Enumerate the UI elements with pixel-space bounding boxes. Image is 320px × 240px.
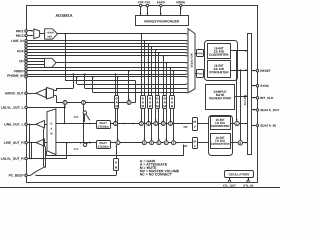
synchronizer block	[136, 16, 189, 26]
input attenuator box PHONE	[115, 96, 119, 109]
legend	[140, 160, 155, 162]
pin XTL_OUT	[229, 177, 231, 180]
pin CD	[19, 60, 23, 62]
wires box AUX to mix	[148, 109, 150, 121]
wires box MIC/CD to mix	[155, 109, 157, 121]
R sum node LINE	[142, 141, 146, 145]
mic record wire	[57, 33, 185, 35]
R sum node AUX	[150, 141, 154, 145]
L sum node LINE	[139, 122, 143, 126]
DAC1 sum node	[235, 121, 239, 125]
pin MIC1	[16, 30, 23, 32]
master volume box R	[193, 138, 198, 149]
pin BIT_CLK (right)	[252, 97, 256, 99]
pc beep attenuator box	[114, 159, 119, 171]
pin CS0 (top)	[138, 1, 143, 3]
mono sum node 1	[63, 101, 67, 105]
wire DAC1 sum	[230, 123, 235, 125]
ADC right block	[208, 61, 231, 78]
wire DAC2 sum	[230, 142, 238, 144]
mono out wire	[27, 93, 36, 95]
mono mux	[47, 88, 54, 100]
wire DAC1 sum to AC-link	[239, 123, 247, 125]
wire ADC2 down to DAC2 sum	[240, 70, 242, 140]
R chain end arrow	[176, 142, 178, 144]
NC label L	[184, 126, 188, 128]
pc beep wire	[36, 175, 38, 177]
wire DAC2 sum to AC-link	[243, 142, 248, 144]
wires box LINE to mix	[141, 109, 143, 121]
pin LNLVL_OUT_L	[1, 106, 23, 109]
pin MIC2	[16, 34, 23, 36]
pin LNLVL_OUT_R	[1, 157, 24, 160]
pin RESET (right)	[252, 70, 256, 72]
input bus wires to selector	[27, 40, 186, 42]
3D bypass switch R	[80, 142, 82, 144]
phat stereo block R	[97, 141, 111, 149]
record selector	[188, 29, 195, 93]
L mix sum after phat	[114, 122, 118, 126]
wire taps box PCM	[170, 68, 172, 96]
R sum node PCM	[172, 141, 176, 145]
monitor wire 3	[92, 77, 94, 93]
3D bypass switch L	[83, 111, 86, 114]
mono sum node 2	[82, 101, 86, 105]
wire taps box VIDEO	[163, 56, 165, 96]
unlabeled input pin circles	[25, 43, 27, 45]
wire SRG to AC-link	[234, 96, 247, 98]
mic gain block +20dB/0dB	[40, 33, 45, 35]
pin SDATA_IN (right)	[252, 125, 256, 127]
monitor wire mono	[65, 34, 67, 81]
pin VIDEO	[14, 70, 24, 72]
phat stereo block L	[97, 121, 111, 129]
LNLVL_OUT_L wire	[27, 107, 65, 109]
DAC left block	[211, 117, 231, 130]
R sum node MIC/CD	[157, 141, 161, 145]
wires box PCM to mix	[170, 109, 172, 121]
L mix wire	[56, 123, 97, 125]
wire MV-L	[181, 123, 192, 125]
R mix wire	[56, 142, 97, 144]
MIC input arrows	[27, 30, 33, 32]
wire taps box MIC/CD	[155, 50, 157, 96]
CD input wires	[27, 58, 44, 60]
wire MV-R to DAC	[198, 142, 211, 144]
CD mix output wire	[56, 62, 186, 64]
mono mix wire	[54, 95, 57, 97]
pin LINE_OUT_R	[4, 142, 24, 145]
page bottom rule	[0, 187, 280, 189]
L sum node PCM	[169, 122, 173, 126]
L chain end arrow	[180, 123, 182, 125]
pin MODE (top)	[177, 1, 185, 3]
ADC container	[205, 41, 238, 81]
monitor wire to mono mux	[73, 74, 75, 88]
DAC container	[209, 116, 233, 156]
pin PC_BEEP	[9, 174, 24, 177]
wire L mix to mono	[64, 105, 66, 123]
wires box VIDEO to mix	[163, 109, 165, 121]
attenuator box PCM	[170, 96, 175, 109]
MIC mux	[34, 29, 40, 39]
LNLVL_OUT_R wire	[27, 158, 67, 160]
pin SDATA_OUT (right)	[252, 109, 256, 111]
ADC left block	[208, 44, 231, 59]
oscillators block	[225, 171, 254, 178]
R mix sum after phat	[116, 141, 120, 145]
pc beep switch	[27, 175, 30, 177]
wire taps box AUX	[148, 44, 150, 96]
title AD1881A	[56, 14, 73, 17]
attenuator box LINE	[141, 96, 146, 109]
pin SYNC (right)	[252, 85, 256, 87]
L sum node VIDEO	[161, 122, 165, 126]
attenuator box VIDEO	[163, 96, 167, 109]
wire taps box LINE	[141, 34, 143, 96]
monitor wire L	[76, 77, 78, 84]
pin AUX	[17, 50, 24, 52]
pin LINE_IN	[12, 40, 24, 43]
L sum node MIC/CD	[154, 122, 158, 126]
wire MV-R	[176, 142, 192, 144]
wire ADC1 down to DAC1 sum	[236, 51, 238, 121]
wire ADC1 to AC-link	[231, 50, 248, 52]
AC-link block	[248, 34, 252, 155]
line out R amp	[45, 142, 48, 144]
R sum node VIDEO	[164, 141, 168, 145]
DAC2 sum node	[238, 141, 242, 145]
L mix chain wire	[110, 123, 181, 125]
beep amp feed wires	[43, 129, 45, 167]
wire bus to mono 3	[128, 71, 130, 100]
DAC right block	[211, 134, 231, 149]
R mix chain wire	[110, 142, 176, 144]
pin EAPD (top)	[157, 1, 165, 3]
PGA block 2	[195, 73, 197, 75]
wires PHONE box to mix	[115, 109, 117, 121]
line sense wires	[29, 124, 31, 158]
PGA block 1	[195, 53, 197, 55]
outer box AD1881A	[27, 6, 258, 183]
selector input arrowheads	[186, 33, 188, 35]
sample rate generators block	[206, 85, 235, 110]
pin PHONE_IN	[7, 74, 23, 77]
L sum node AUX	[147, 122, 151, 126]
pin XTL_IN	[248, 177, 250, 180]
attenuator box AUX	[148, 96, 153, 109]
mono amp	[36, 89, 46, 98]
monitor wire R	[84, 74, 86, 89]
wire R mix to mono	[83, 105, 85, 143]
pin MONO_OUT	[5, 92, 23, 95]
wire taps PHONE box	[115, 74, 117, 96]
NC label R	[184, 145, 188, 147]
mono sum node 3	[127, 101, 131, 105]
master volume box L	[193, 118, 198, 131]
monitor return wire	[46, 151, 48, 155]
attenuator box MIC/CD	[156, 96, 160, 109]
wire ADC2 to AC-link	[231, 70, 248, 72]
pc beep to mix wire	[116, 145, 118, 159]
junction mic wire	[64, 33, 66, 35]
pin CS1 (top)	[145, 1, 150, 3]
pin LINE_OUT_L	[4, 123, 23, 126]
line out L amp	[45, 124, 48, 126]
wire MV-L to DAC	[198, 123, 211, 125]
output volume mux	[47, 109, 56, 155]
CD mix stage	[45, 58, 57, 67]
